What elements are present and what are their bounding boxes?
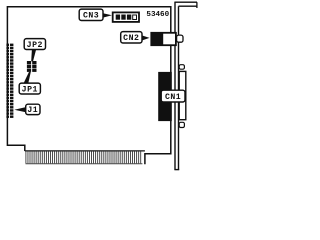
svg-text:JP1: JP1 <box>22 85 38 94</box>
svg-text:J1: J1 <box>27 106 38 115</box>
svg-text:CN2: CN2 <box>123 34 139 43</box>
svg-text:JP2: JP2 <box>27 41 43 50</box>
svg-text:CN1: CN1 <box>165 93 181 102</box>
svg-text:53460: 53460 <box>146 11 169 19</box>
svg-text:CN3: CN3 <box>83 11 99 20</box>
